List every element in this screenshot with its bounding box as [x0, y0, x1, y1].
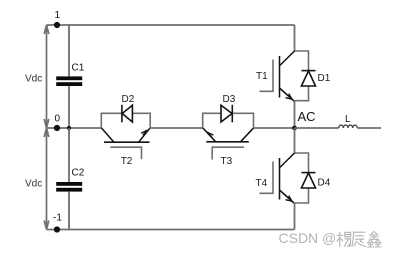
diode D1: [301, 71, 315, 86]
wire: D4 branch loop: [295, 153, 309, 203]
watermark char chen: [352, 232, 366, 247]
svg-text:T1: T1: [256, 71, 268, 82]
svg-text:Vdc: Vdc: [25, 74, 42, 85]
wire: T3 upper loop: [203, 113, 254, 128]
svg-text:C1: C1: [72, 63, 85, 74]
wire: right branch from top rail: [294, 25, 296, 51]
svg-text:D2: D2: [122, 94, 135, 105]
T1 gate: [260, 60, 274, 92]
svg-text:L: L: [345, 114, 351, 125]
wire: capacitor branch upper: [68, 25, 70, 76]
T2 emitter arrow: [141, 130, 147, 135]
svg-text:AC: AC: [298, 109, 316, 124]
diode D2: [122, 105, 132, 123]
T4 emitter arrow: [286, 196, 293, 202]
T4 gate: [260, 162, 274, 194]
T3 emitter arrow: [207, 132, 214, 137]
svg-text:0: 0: [55, 114, 61, 125]
svg-text:C2: C2: [72, 168, 85, 179]
node -1: [54, 226, 60, 232]
svg-text:CSDN @: CSDN @: [279, 230, 337, 246]
node AC: [292, 126, 297, 131]
inductor L: [339, 125, 357, 128]
svg-text:D4: D4: [318, 178, 331, 189]
svg-text:T4: T4: [256, 178, 268, 189]
svg-text:1: 1: [55, 10, 61, 21]
node 0: [54, 125, 60, 131]
node: cap midpoint junction: [67, 126, 71, 130]
svg-text:T3: T3: [221, 156, 233, 167]
T2 gate: [110, 147, 141, 159]
wire: C1 to mid junction: [68, 86, 70, 128]
wire: C2 to bottom rail: [68, 192, 70, 230]
svg-text:D3: D3: [223, 94, 236, 105]
watermark char yang: [337, 232, 351, 247]
T1 emitter arrow: [286, 94, 293, 100]
svg-text:D1: D1: [318, 73, 331, 84]
capacitor C1: [56, 76, 82, 86]
transistor T1 body: [280, 51, 295, 101]
wire: T4 emitter down to bottom rail: [294, 203, 296, 230]
wire: T3 to AC node: [254, 127, 295, 129]
wire: T2 upper loop: [101, 113, 150, 128]
node 1: [54, 22, 60, 28]
transistor T4 body: [280, 153, 295, 203]
watermark char xin: [367, 231, 382, 247]
wire: middle (neutral) rail left of T2: [47, 127, 102, 129]
wire: T1 emitter down to AC node: [294, 101, 296, 128]
wire: inductor to right edge: [357, 127, 381, 129]
wire: mid junction to C2: [68, 128, 70, 182]
Vdc measurement arrow line (left): [44, 25, 49, 230]
diode D4: [301, 173, 315, 188]
diode D3: [221, 105, 232, 123]
transistor T2 body: [102, 128, 150, 142]
capacitor C2: [56, 182, 82, 192]
svg-text:T2: T2: [121, 156, 133, 167]
wire: AC node to inductor: [295, 127, 339, 129]
wire: AC node down to T4: [294, 128, 296, 153]
transistor T3 body: [203, 128, 253, 142]
wire: between T2 and T3: [150, 127, 203, 129]
T3 gate: [212, 147, 244, 159]
wire: top DC+ rail: [47, 24, 295, 26]
svg-text:Vdc: Vdc: [25, 179, 42, 190]
svg-text:-1: -1: [53, 213, 62, 224]
wire: bottom DC- rail: [47, 229, 295, 231]
wire: D1 branch loop: [295, 51, 309, 101]
